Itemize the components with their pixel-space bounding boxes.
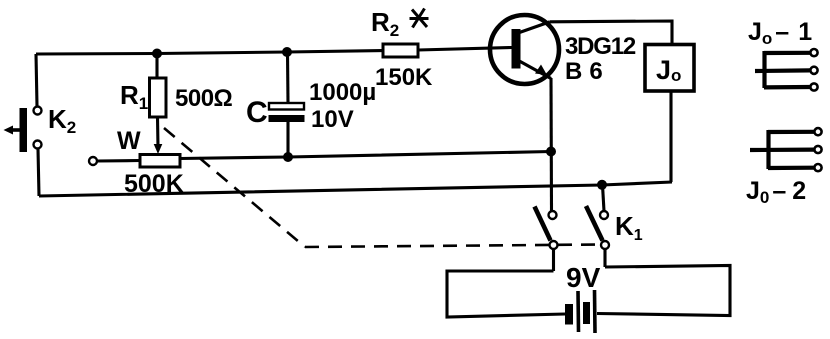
svg-text:B6: B6 — [565, 58, 610, 85]
wiper arrow of W — [154, 144, 163, 154]
relay contact J0-2 — [750, 128, 822, 171]
wire C bottom lead — [286, 122, 289, 157]
svg-text:K1: K1 — [615, 211, 643, 244]
wire J0 bottom lead — [669, 91, 672, 182]
resistor R1 — [150, 78, 167, 117]
svg-text:500K: 500K — [124, 170, 184, 198]
svg-text:3DG12: 3DG12 — [565, 33, 636, 60]
node emitter junction — [546, 147, 556, 157]
svg-text:500Ω: 500Ω — [175, 85, 233, 112]
svg-text:Jo–1: Jo–1 — [748, 18, 812, 48]
wire bottom rail — [39, 182, 672, 196]
wire C top lead — [286, 52, 290, 103]
svg-text:150K: 150K — [375, 64, 433, 91]
potentiometer W — [140, 155, 180, 168]
wire collector to J0 — [550, 21, 672, 45]
node W left terminal — [89, 157, 97, 165]
wire R1 top lead — [155, 54, 158, 78]
switch K1 left pole — [535, 207, 558, 250]
svg-text:J0–2: J0–2 — [746, 177, 806, 207]
wire K1 right lower lead — [603, 249, 606, 267]
label asterisk of R2 — [410, 9, 429, 28]
wire top rail — [36, 51, 383, 55]
svg-text:9V: 9V — [566, 262, 601, 293]
relay contact J0-1 — [755, 49, 818, 91]
wire W left lead — [97, 159, 140, 163]
svg-text:C: C — [246, 96, 268, 129]
wire K1 right upper lead — [603, 185, 605, 211]
node C-bottom junction — [283, 152, 293, 162]
wire mechanical link dashed diagonal — [164, 128, 305, 247]
svg-text:K2: K2 — [48, 104, 76, 137]
switch K1 right pole — [586, 206, 609, 249]
wire W right to emitter node — [180, 152, 551, 159]
wire emitter vertical — [549, 78, 553, 211]
battery B1 9V — [565, 290, 595, 333]
node R1-top junction — [152, 49, 162, 59]
wire K2 lower lead — [38, 149, 39, 196]
wire battery loop right — [597, 266, 730, 316]
resistor R2 — [383, 44, 418, 57]
svg-text:10V: 10V — [311, 106, 354, 133]
wire K2 upper lead — [36, 54, 37, 106]
wire battery loop left — [447, 271, 565, 317]
svg-text:1000µ: 1000µ — [309, 79, 376, 106]
relay coil J0 box — [645, 45, 694, 92]
node C-top junction — [282, 47, 292, 57]
svg-text:R2: R2 — [371, 7, 399, 40]
svg-text:W: W — [117, 127, 141, 155]
wire R2 to base — [418, 48, 512, 51]
wire R1 to wiper — [156, 117, 160, 147]
wire K1 left lower lead — [552, 249, 555, 271]
node K1-right junction — [597, 180, 607, 190]
transistor Q1 3DG12 — [490, 15, 559, 84]
wire mechanical link dashed horizontal — [305, 245, 600, 248]
capacitor C — [269, 103, 305, 122]
svg-text:R1: R1 — [120, 80, 148, 113]
switch K2 — [4, 107, 42, 153]
svg-text:Jo: Jo — [656, 55, 681, 85]
